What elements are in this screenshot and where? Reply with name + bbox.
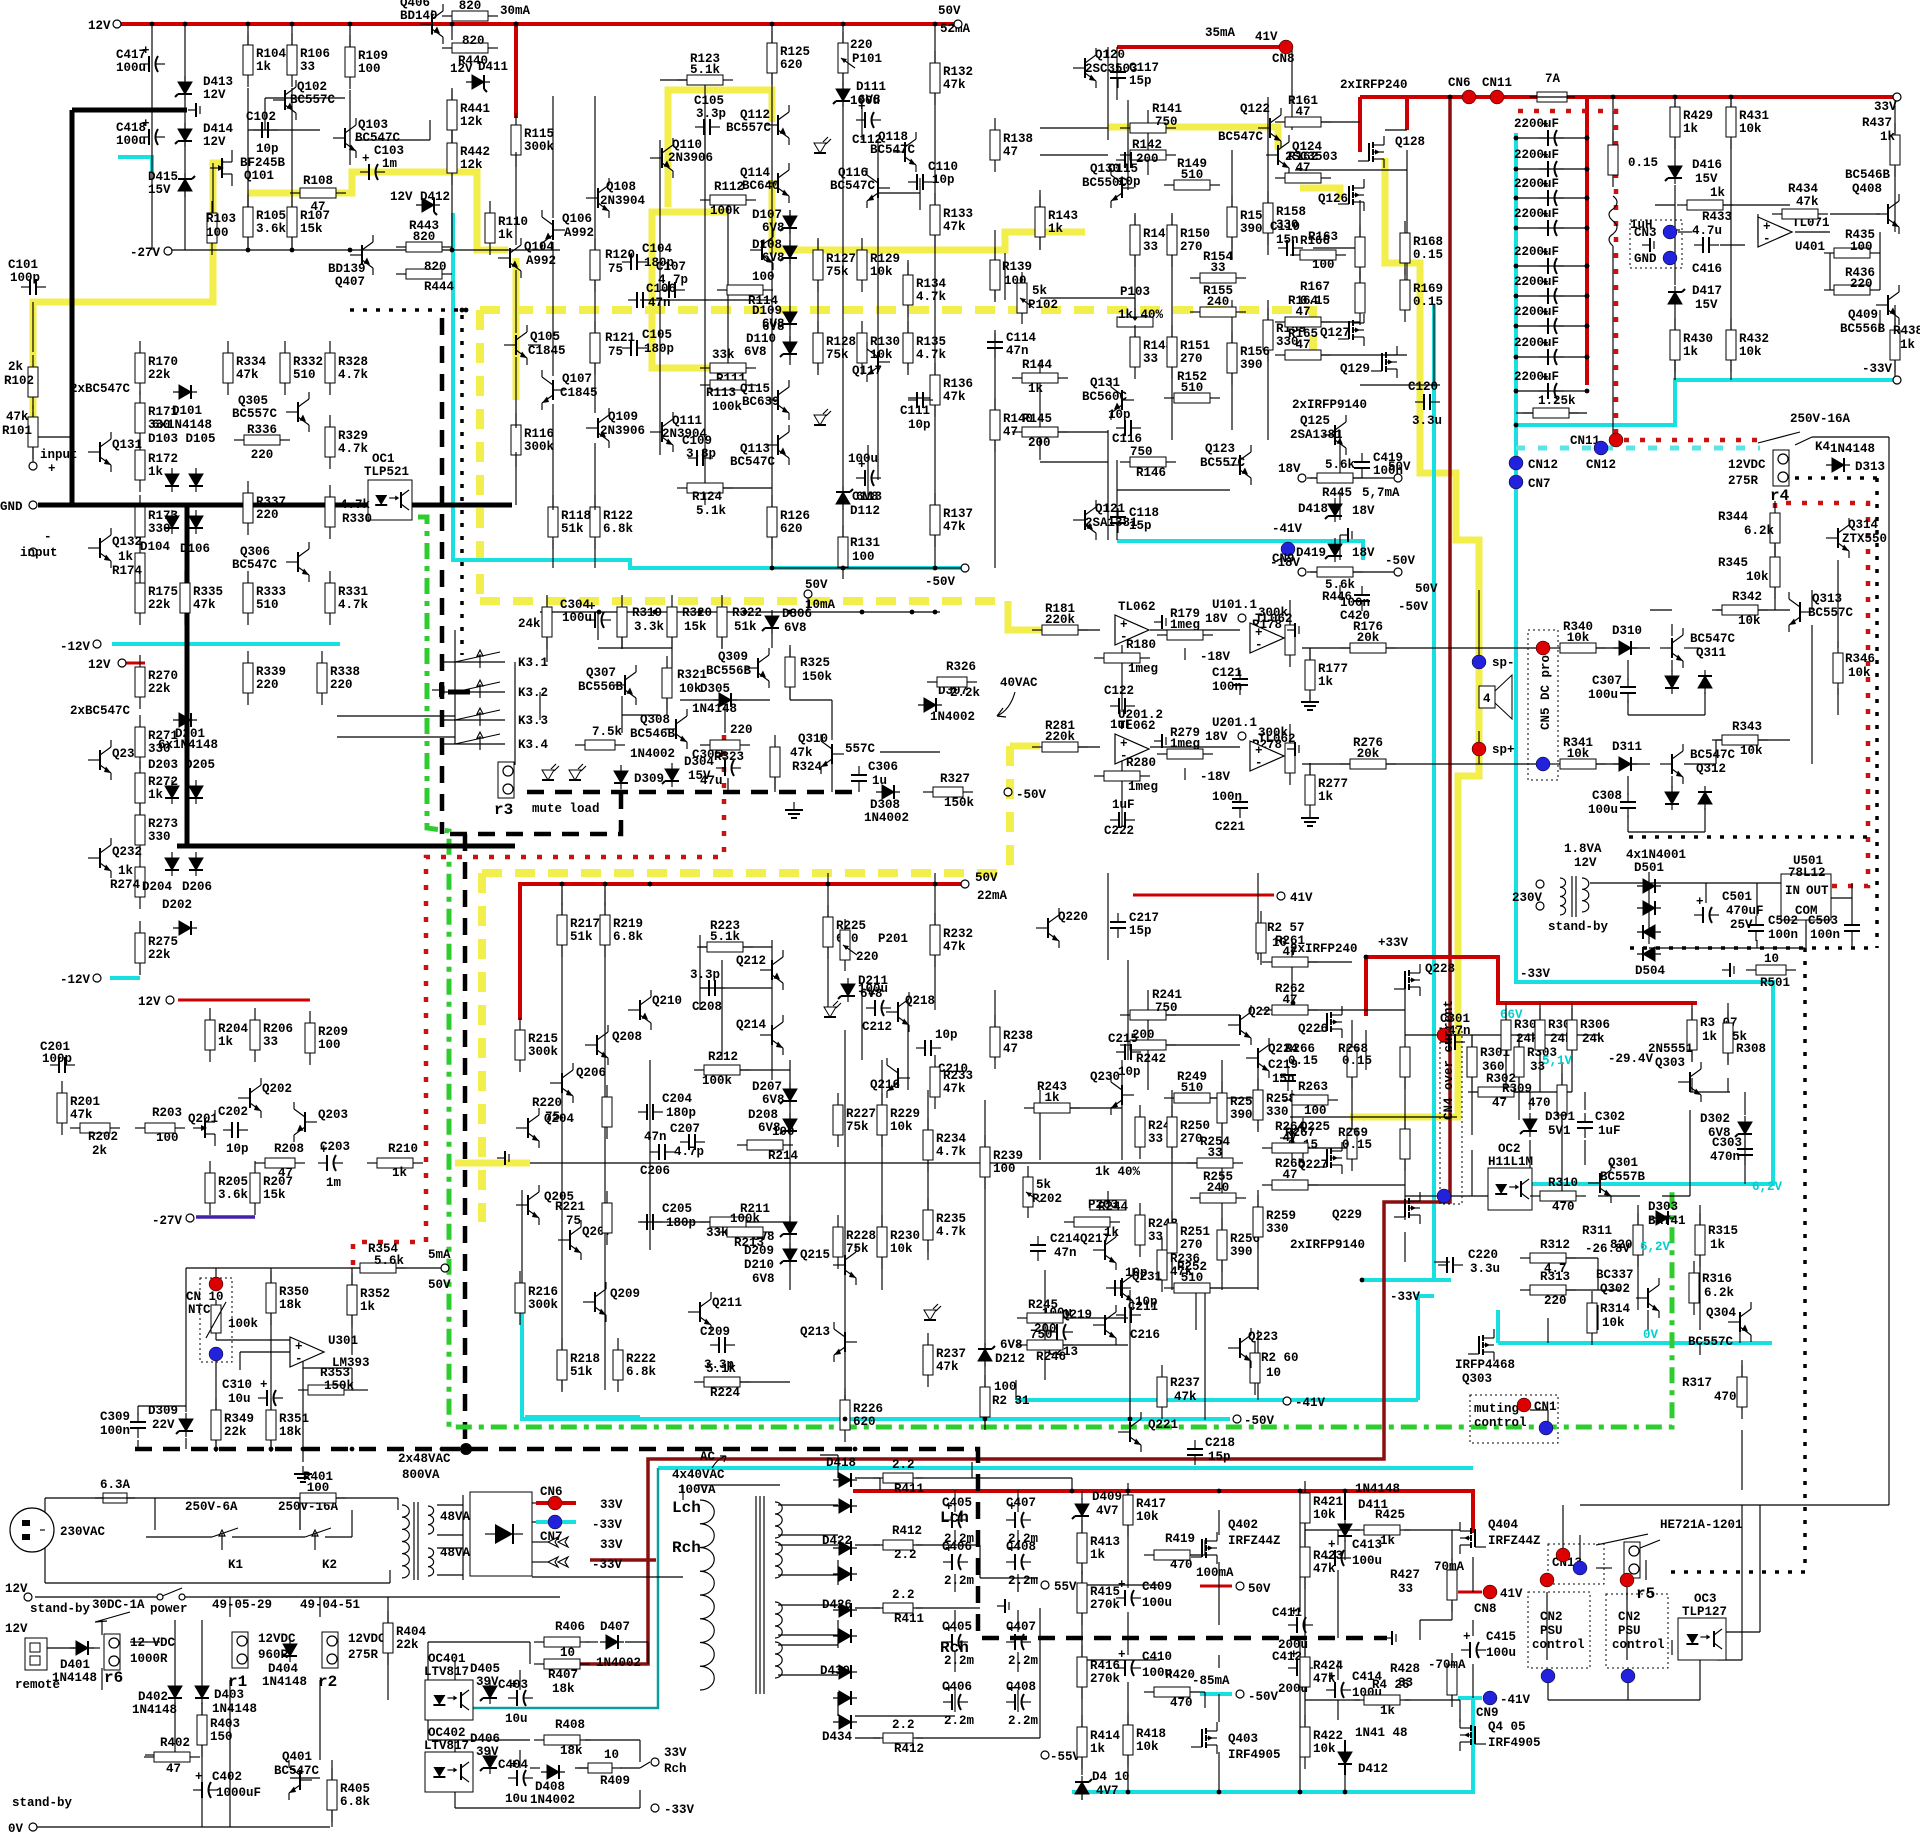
svg-text:470: 470 bbox=[1552, 1200, 1575, 1214]
net -50V lower amp bbox=[522, 1293, 1230, 1419]
svg-text:5.6k: 5.6k bbox=[374, 1254, 405, 1268]
svg-text:R309: R309 bbox=[1502, 1082, 1532, 1096]
wire bbox=[724, 700, 726, 733]
resistor R162 bbox=[1275, 173, 1331, 183]
svg-text:15p: 15p bbox=[1129, 519, 1152, 533]
wire bbox=[1267, 300, 1269, 440]
svg-text:180p: 180p bbox=[666, 1106, 696, 1120]
wire bbox=[1404, 1529, 1460, 1531]
resistor R281 bbox=[1032, 742, 1088, 752]
svg-text:-50V: -50V bbox=[1385, 554, 1416, 568]
resistor R346 bbox=[1833, 641, 1843, 695]
svg-text:47: 47 bbox=[1282, 993, 1297, 1007]
transistor Q? bbox=[750, 230, 773, 270]
svg-text:5.1k: 5.1k bbox=[710, 930, 741, 944]
svg-text:12VDC: 12VDC bbox=[348, 1632, 386, 1646]
switch power bbox=[160, 1588, 182, 1597]
svg-text:D208: D208 bbox=[748, 1108, 778, 1122]
resistor R145 bbox=[1012, 427, 1068, 437]
svg-text:47k: 47k bbox=[6, 410, 29, 424]
net signal highlight bbox=[1350, 158, 1479, 1117]
svg-text:330: 330 bbox=[148, 522, 171, 536]
svg-text:750: 750 bbox=[1155, 1001, 1178, 1015]
svg-text:R116: R116 bbox=[524, 427, 554, 441]
svg-text:1k: 1k bbox=[1090, 1742, 1106, 1756]
svg-text:Q311: Q311 bbox=[1696, 646, 1726, 660]
net ground dashed right bbox=[1664, 948, 1805, 1572]
svg-text:BC557C: BC557C bbox=[232, 407, 278, 421]
transistor Q112 bbox=[766, 105, 789, 145]
wire bbox=[1304, 1520, 1306, 1545]
potentiometer P bbox=[838, 32, 855, 84]
svg-text:1000R: 1000R bbox=[130, 1652, 168, 1666]
relay coil r5 bbox=[1624, 1542, 1640, 1578]
svg-text:1meg: 1meg bbox=[1170, 737, 1200, 751]
wire bbox=[919, 178, 921, 210]
resistor R429 bbox=[1670, 95, 1680, 149]
junction bbox=[1217, 1790, 1222, 1795]
svg-text:C309: C309 bbox=[100, 1410, 130, 1424]
svg-text:220: 220 bbox=[850, 38, 873, 52]
wire bbox=[755, 1496, 757, 1694]
wire bbox=[1419, 1620, 1421, 1640]
wire bbox=[247, 193, 249, 213]
wire bbox=[1720, 244, 1745, 246]
terminal bbox=[1004, 788, 1012, 796]
terminal bbox=[1238, 732, 1246, 740]
capacitor C304 bbox=[586, 600, 611, 628]
svg-text:Q132: Q132 bbox=[112, 535, 142, 549]
svg-text:C111: C111 bbox=[900, 404, 930, 418]
net dc prot sense bbox=[1302, 647, 1540, 649]
wire bbox=[335, 1497, 398, 1499]
capacitor C214 bbox=[1030, 1236, 1046, 1261]
transistor Q303b bbox=[1678, 1062, 1701, 1102]
resistor R405 bbox=[327, 1768, 337, 1822]
net D411 wire bbox=[1344, 1491, 1346, 1520]
resistor R139 bbox=[990, 248, 1000, 302]
capacitor 100u bbox=[1048, 1312, 1073, 1340]
svg-text:BC557C: BC557C bbox=[1808, 606, 1854, 620]
net output node bbox=[1290, 1116, 1457, 1118]
net highlight to U101 bbox=[1008, 601, 1052, 630]
transistor Q127 bbox=[1338, 314, 1364, 346]
net 50V lower bus bbox=[520, 884, 962, 1020]
svg-text:R280: R280 bbox=[1126, 756, 1156, 770]
svg-text:100: 100 bbox=[358, 62, 381, 76]
svg-text:control: control bbox=[1474, 1416, 1527, 1430]
wire bbox=[1506, 1091, 1572, 1093]
svg-text:820: 820 bbox=[459, 0, 482, 13]
resistor R266 bbox=[1347, 1035, 1357, 1089]
wire bbox=[1548, 1289, 1620, 1291]
svg-text:-12V: -12V bbox=[60, 640, 91, 654]
capacitor C503 bbox=[1844, 916, 1860, 941]
svg-text:Q232: Q232 bbox=[112, 845, 142, 859]
svg-text:100u: 100u bbox=[848, 452, 878, 466]
svg-text:1uF: 1uF bbox=[1598, 1124, 1621, 1138]
resistor R211 bbox=[700, 1217, 756, 1227]
svg-text:10: 10 bbox=[560, 1646, 575, 1660]
resistor R208 bbox=[255, 1158, 305, 1168]
diode D311 bbox=[1613, 757, 1637, 771]
svg-text:10p: 10p bbox=[226, 1142, 249, 1156]
terminal 12V bbox=[113, 20, 121, 28]
capacitor C405 bbox=[943, 1622, 968, 1650]
capacitor C220 bbox=[1438, 1257, 1463, 1273]
svg-text:200: 200 bbox=[1136, 152, 1159, 166]
junction bbox=[1673, 95, 1678, 100]
svg-text:R173: R173 bbox=[148, 509, 178, 523]
ground bbox=[1154, 615, 1166, 629]
svg-text:R332: R332 bbox=[293, 355, 323, 369]
svg-text:K2: K2 bbox=[322, 1558, 337, 1572]
svg-text:47k: 47k bbox=[943, 220, 966, 234]
svg-text:C103: C103 bbox=[374, 144, 404, 158]
connector CN3 bbox=[1663, 225, 1677, 239]
wire bbox=[984, 1400, 986, 1419]
wire bbox=[182, 1596, 560, 1598]
diode D206 bbox=[189, 852, 203, 876]
capacitor C120 bbox=[1415, 394, 1440, 410]
transistor Q213 bbox=[834, 1322, 857, 1362]
net black dashed mid2 bbox=[463, 834, 468, 1449]
wire bbox=[1539, 1003, 1541, 1020]
net ground dashed protect2 bbox=[1630, 946, 1877, 950]
wire bbox=[916, 1544, 980, 1546]
wire bbox=[705, 487, 772, 489]
svg-text:C305: C305 bbox=[692, 748, 722, 762]
wire bbox=[763, 1496, 765, 1694]
net PSU bottom rail bbox=[1072, 1698, 1473, 1792]
transistor Q131b bbox=[1111, 380, 1134, 420]
svg-text:820: 820 bbox=[462, 34, 485, 48]
resistor R115 bbox=[511, 113, 521, 167]
svg-text:18V: 18V bbox=[1352, 504, 1375, 518]
svg-text:R170: R170 bbox=[148, 355, 178, 369]
wire bbox=[594, 96, 596, 250]
wire bbox=[1472, 1557, 1474, 1592]
svg-text:-50V: -50V bbox=[1248, 1690, 1279, 1704]
wire bbox=[215, 1440, 217, 1449]
svg-text:C407: C407 bbox=[1006, 1496, 1036, 1510]
svg-text:510: 510 bbox=[256, 598, 279, 612]
terminal bbox=[1283, 1397, 1291, 1405]
svg-text:R137: R137 bbox=[943, 507, 973, 521]
wire bbox=[1774, 538, 1776, 560]
svg-text:BC547C: BC547C bbox=[1218, 130, 1264, 144]
wire bbox=[1134, 215, 1136, 365]
net mains bbox=[45, 1497, 108, 1499]
junction bbox=[1364, 955, 1369, 960]
transformer psu sec1 bbox=[775, 1502, 782, 1538]
svg-text:2.2: 2.2 bbox=[894, 1548, 917, 1562]
svg-text:620: 620 bbox=[780, 58, 803, 72]
svg-text:IRFP4468: IRFP4468 bbox=[1455, 1358, 1515, 1372]
net lower feedback bbox=[530, 1162, 1205, 1164]
svg-text:R319: R319 bbox=[632, 606, 662, 620]
diode D422b bbox=[833, 1567, 857, 1581]
wire bbox=[1195, 1290, 1197, 1330]
wire bbox=[1805, 920, 1807, 948]
switch K1 bbox=[212, 1528, 238, 1550]
svg-text:4.7k: 4.7k bbox=[916, 348, 947, 362]
svg-text:CN12: CN12 bbox=[1586, 458, 1616, 472]
svg-text:Q129: Q129 bbox=[1340, 362, 1370, 376]
junction bbox=[460, 1443, 472, 1455]
wire bbox=[1107, 873, 1109, 960]
svg-text:Q113: Q113 bbox=[740, 442, 770, 456]
wire bbox=[270, 1312, 272, 1340]
svg-text:D430: D430 bbox=[820, 1664, 850, 1678]
capacitor C405 bbox=[943, 1500, 968, 1528]
resistor R321 bbox=[662, 656, 672, 710]
transistor Q207 bbox=[558, 1220, 581, 1260]
wire bbox=[1674, 97, 1676, 110]
transistor Q402 bbox=[1191, 1532, 1217, 1564]
resistor R169 bbox=[1400, 268, 1410, 322]
wire bbox=[1017, 1652, 1019, 1672]
wire bbox=[1596, 1567, 1612, 1569]
net CN9 stub bbox=[1458, 1696, 1482, 1700]
wire bbox=[351, 1268, 353, 1288]
wire bbox=[1757, 214, 1759, 240]
svg-text:4V7: 4V7 bbox=[1096, 1784, 1119, 1798]
connector CN13+ bbox=[1556, 1548, 1570, 1562]
svg-text:2200uF: 2200uF bbox=[1514, 336, 1559, 350]
transformer psu primary bbox=[700, 1500, 714, 1690]
transistor Q125 bbox=[1323, 415, 1346, 455]
svg-text:R130: R130 bbox=[870, 335, 900, 349]
wire bbox=[916, 1737, 1040, 1739]
ground bbox=[1722, 963, 1734, 977]
resistor R406 bbox=[534, 1637, 590, 1647]
connector CN9 bbox=[1281, 542, 1295, 556]
potentiometer P bbox=[1090, 1191, 1126, 1210]
svg-text:510: 510 bbox=[1181, 1081, 1204, 1095]
svg-text:1N4148: 1N4148 bbox=[692, 702, 737, 716]
svg-text:R238: R238 bbox=[1003, 1029, 1033, 1043]
svg-text:33: 33 bbox=[1143, 240, 1158, 254]
svg-text:47k: 47k bbox=[1796, 195, 1819, 209]
wire bbox=[908, 397, 935, 399]
svg-text:Q312: Q312 bbox=[1696, 762, 1726, 776]
net over-current sense bbox=[578, 97, 1450, 1664]
svg-text:R245: R245 bbox=[1028, 1298, 1058, 1312]
connector CN11 bbox=[1490, 90, 1504, 104]
relay contact K3.3 bbox=[455, 708, 500, 726]
net 41V bus bbox=[1117, 45, 1280, 49]
wire bbox=[1184, 648, 1186, 660]
svg-text:10k: 10k bbox=[679, 682, 702, 696]
svg-text:C107: C107 bbox=[656, 260, 686, 274]
wire bbox=[1699, 1205, 1701, 1232]
svg-text:330: 330 bbox=[1266, 1105, 1289, 1119]
transistor Q201 bbox=[193, 1110, 215, 1146]
terminal bbox=[29, 1823, 37, 1831]
transformer psu sec3 bbox=[775, 1602, 782, 1638]
wire bbox=[515, 452, 517, 505]
capacitor C406 bbox=[943, 1682, 968, 1710]
resistor R142 bbox=[1120, 150, 1176, 160]
svg-text:6,2V: 6,2V bbox=[1752, 1180, 1783, 1194]
capacitor C bbox=[1539, 306, 1564, 334]
wire bbox=[201, 1620, 203, 1680]
svg-text:750: 750 bbox=[1155, 115, 1178, 129]
junction bbox=[1585, 167, 1590, 172]
ground bbox=[1384, 1631, 1396, 1645]
wire bbox=[331, 1760, 333, 1780]
junction bbox=[348, 248, 353, 253]
resistor R201 bbox=[57, 1081, 67, 1135]
wire bbox=[1894, 167, 1896, 232]
diode D310 bbox=[1613, 641, 1637, 655]
svg-text:C407: C407 bbox=[1006, 1620, 1036, 1634]
wire bbox=[454, 1740, 456, 1752]
wire bbox=[1218, 1586, 1220, 1625]
resistor R418 bbox=[1123, 1713, 1133, 1767]
diode D401 bbox=[70, 1641, 94, 1655]
svg-text:250V-16A: 250V-16A bbox=[1790, 412, 1851, 426]
svg-text:6.2k: 6.2k bbox=[1704, 1286, 1735, 1300]
diode D414 bbox=[175, 123, 192, 147]
svg-text:15n: 15n bbox=[1276, 233, 1299, 247]
svg-text:R327: R327 bbox=[940, 772, 970, 786]
wire bbox=[621, 696, 623, 733]
wire bbox=[1406, 150, 1408, 290]
svg-text:C306: C306 bbox=[868, 760, 898, 774]
wire bbox=[1645, 1560, 1647, 1580]
resistor R271 bbox=[135, 715, 145, 769]
box CN13 bbox=[1548, 1544, 1604, 1584]
svg-text:-18V: -18V bbox=[1200, 770, 1231, 784]
capacitor C411 bbox=[1288, 1605, 1313, 1633]
wire bbox=[454, 1660, 456, 1680]
svg-text:33: 33 bbox=[1207, 1146, 1222, 1160]
wire bbox=[1744, 1092, 1746, 1115]
svg-text:R143: R143 bbox=[1048, 209, 1078, 223]
wire bbox=[1081, 1685, 1083, 1730]
diode D307 bbox=[918, 698, 942, 712]
svg-text:2.2: 2.2 bbox=[892, 1588, 915, 1602]
wire bbox=[1280, 1147, 1352, 1149]
junction bbox=[1585, 136, 1590, 141]
diode D410 bbox=[1075, 1776, 1092, 1800]
svg-text:R411: R411 bbox=[894, 1482, 924, 1496]
wire bbox=[1811, 740, 1813, 764]
ground bbox=[294, 1466, 312, 1482]
junction bbox=[743, 610, 748, 615]
connector CN10- bbox=[209, 1347, 223, 1361]
svg-text:5,7mA: 5,7mA bbox=[1362, 486, 1400, 500]
diode D415 bbox=[178, 173, 195, 197]
wire bbox=[1257, 1190, 1259, 1290]
svg-text:-41V: -41V bbox=[1295, 1396, 1326, 1410]
wire bbox=[831, 700, 833, 740]
resistor R328 bbox=[325, 341, 335, 395]
svg-text:47k: 47k bbox=[1313, 1672, 1336, 1686]
svg-text:C410: C410 bbox=[1142, 1650, 1172, 1664]
terminal bbox=[1298, 474, 1306, 482]
wire bbox=[561, 884, 563, 905]
svg-text:18k: 18k bbox=[552, 1682, 575, 1696]
svg-text:Q206: Q206 bbox=[576, 1066, 606, 1080]
terminal bbox=[1394, 568, 1402, 576]
svg-text:BC547C: BC547C bbox=[830, 179, 876, 193]
svg-text:C221: C221 bbox=[1215, 820, 1245, 834]
wire bbox=[1017, 1578, 1019, 1592]
capacitor C412 bbox=[1288, 1648, 1313, 1676]
svg-text:OC402: OC402 bbox=[428, 1726, 466, 1740]
wire bbox=[1674, 140, 1676, 160]
svg-text:Q216: Q216 bbox=[870, 1078, 900, 1092]
wire bbox=[1404, 1117, 1406, 1130]
svg-text:0.15: 0.15 bbox=[1413, 295, 1443, 309]
resistor R403 bbox=[197, 1703, 207, 1757]
svg-text:PSU: PSU bbox=[1618, 1624, 1641, 1638]
svg-text:300k: 300k bbox=[528, 1298, 559, 1312]
svg-text:Q127: Q127 bbox=[1320, 326, 1350, 340]
wire bbox=[1221, 1060, 1223, 1290]
net red dashed psu bbox=[1518, 111, 1616, 437]
svg-text:100: 100 bbox=[994, 1380, 1017, 1394]
wire bbox=[1560, 647, 1650, 649]
resistor 1.25k bbox=[1523, 408, 1579, 418]
svg-text:470: 470 bbox=[1528, 1096, 1551, 1110]
resistor R203 bbox=[135, 1123, 185, 1133]
capacitor C114 bbox=[987, 333, 1003, 358]
ground bbox=[1287, 623, 1299, 637]
resistor R216 bbox=[515, 1271, 525, 1325]
resistor R166 bbox=[1355, 225, 1365, 279]
wire bbox=[413, 1502, 415, 1580]
svg-text:R430: R430 bbox=[1683, 332, 1713, 346]
svg-text:R421: R421 bbox=[1313, 1495, 1343, 1509]
svg-text:Q213: Q213 bbox=[800, 1325, 830, 1339]
resistor R151 bbox=[1167, 325, 1177, 379]
resistor R144 bbox=[1012, 373, 1068, 383]
svg-text:D311: D311 bbox=[1612, 740, 1642, 754]
wire bbox=[532, 1521, 536, 1523]
svg-text:100n: 100n bbox=[1340, 596, 1370, 610]
svg-text:TL062: TL062 bbox=[1258, 732, 1296, 746]
svg-text:TL062: TL062 bbox=[1118, 719, 1156, 733]
connector CN11b bbox=[1609, 433, 1623, 447]
diode D101 bbox=[173, 385, 197, 399]
resistor R249 bbox=[1164, 1093, 1220, 1103]
svg-text:3.6k: 3.6k bbox=[218, 1188, 249, 1202]
wire bbox=[1626, 1580, 1628, 1600]
svg-text:390: 390 bbox=[1240, 222, 1263, 236]
svg-text:Q209: Q209 bbox=[610, 1287, 640, 1301]
diode D103 bbox=[165, 468, 179, 492]
resistor R351 bbox=[266, 1398, 276, 1452]
wire bbox=[130, 1641, 160, 1643]
svg-text:R124: R124 bbox=[692, 490, 723, 504]
svg-text:Q221: Q221 bbox=[1148, 1418, 1178, 1432]
svg-text:1k: 1k bbox=[256, 60, 272, 74]
resistor 10 bbox=[1746, 965, 1796, 975]
terminal 33V bbox=[1893, 93, 1901, 101]
wire bbox=[1811, 590, 1813, 610]
wire bbox=[437, 1547, 463, 1549]
svg-text:4.7k: 4.7k bbox=[338, 598, 369, 612]
svg-text:BC547C: BC547C bbox=[870, 143, 916, 157]
svg-text:1meg: 1meg bbox=[1128, 662, 1158, 676]
IC U501 78L12 bbox=[1781, 874, 1831, 920]
wire bbox=[1547, 1410, 1549, 1430]
svg-text:2xIRFP240: 2xIRFP240 bbox=[1340, 78, 1408, 92]
